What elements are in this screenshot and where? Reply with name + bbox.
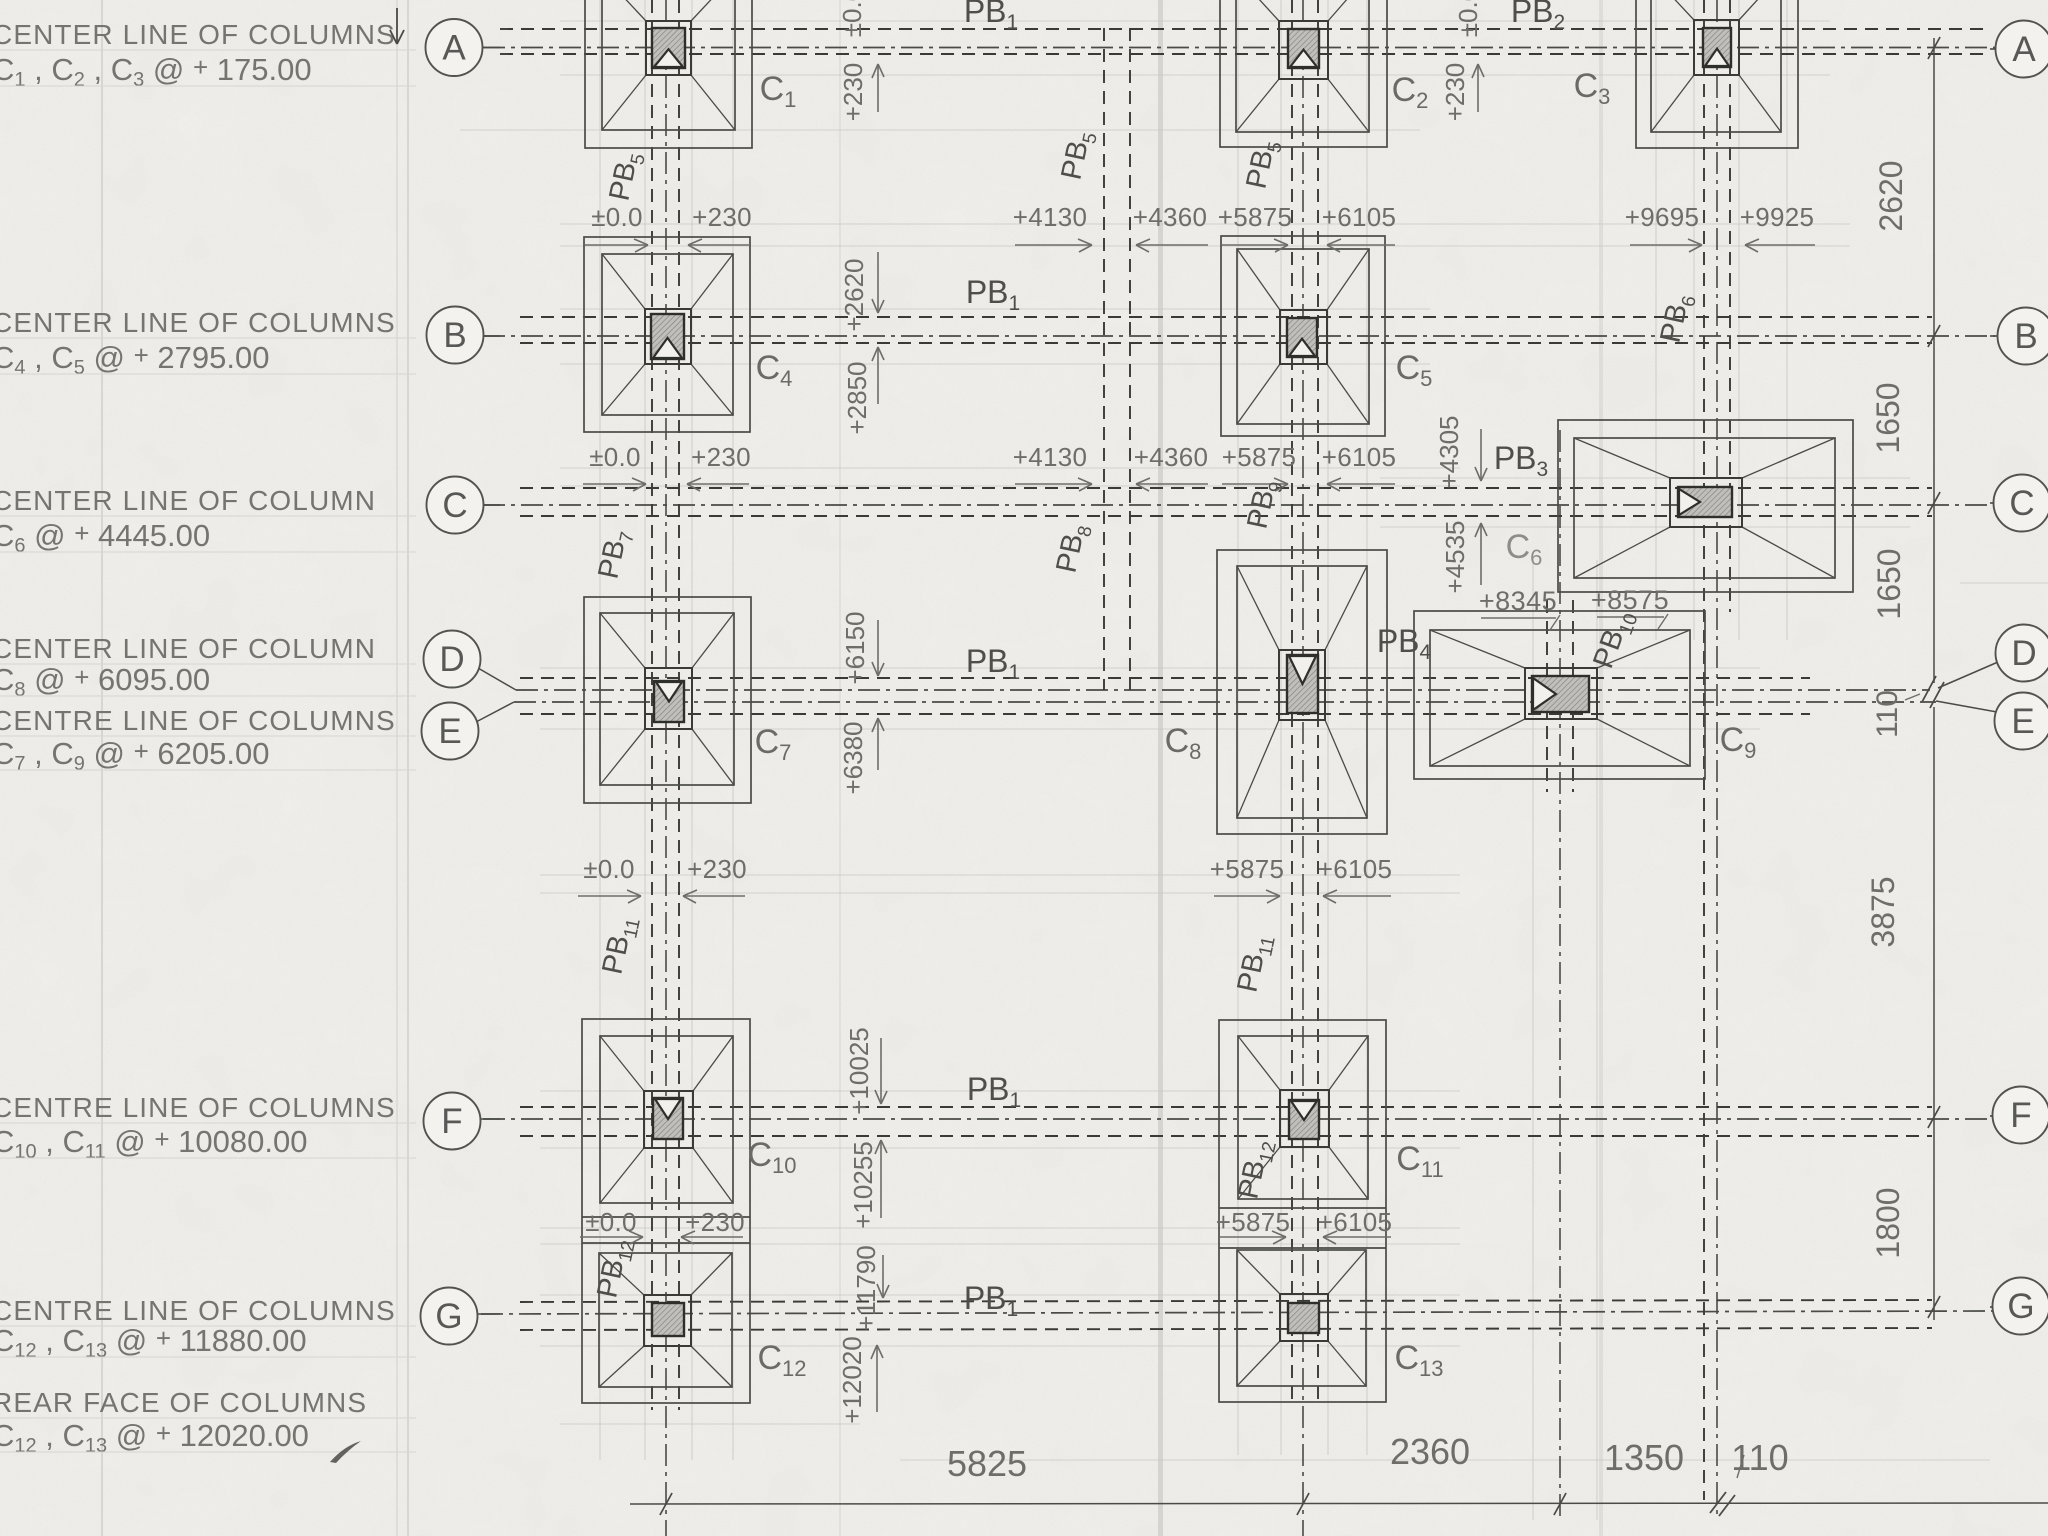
dimension &#177;0.0 top col1 (clipped): [837, 0, 867, 37]
svg-text:CENTER LINE OF COLUMNS: CENTER LINE OF COLUMNS: [0, 307, 396, 338]
label PB1 row D: [966, 643, 1020, 684]
dimension 2620 right: [1873, 160, 1909, 231]
beam PB1 edges row B: [520, 317, 1932, 343]
dimension +6105 @y878: [1318, 854, 1393, 903]
dimension 1650 right (C-D): [1871, 548, 1907, 619]
svg-text:+10255: +10255: [848, 1141, 878, 1228]
svg-text:+4130: +4130: [1013, 202, 1088, 232]
beam PB5/PB8 vertical mid bay: [1104, 28, 1130, 690]
dimension 1350 bottom: [1604, 1437, 1684, 1478]
dimension 1800 right: [1870, 1187, 1906, 1258]
grid bubble B right: [1998, 308, 2048, 365]
svg-text:+4305: +4305: [1434, 415, 1464, 488]
dimension 5825 bottom: [947, 1443, 1027, 1484]
svg-text:D: D: [439, 640, 464, 679]
column C3 (hatched): [1703, 28, 1731, 67]
svg-text:+4360: +4360: [1134, 442, 1209, 472]
grid line G: [481, 1311, 1995, 1314]
svg-text:+230: +230: [685, 1207, 745, 1237]
svg-text:+5875: +5875: [1218, 202, 1293, 232]
footing C2 pad: [1220, 0, 1387, 147]
label C2: [1392, 71, 1429, 113]
svg-text:+5875: +5875: [1222, 442, 1297, 472]
grid line E: [476, 701, 1997, 722]
label PB1 row G: [964, 1280, 1018, 1321]
grid bubble A left: [426, 19, 483, 76]
dimension +5875 @y1231: [1216, 1207, 1291, 1244]
grid bubble B left: [427, 307, 484, 364]
svg-text:A: A: [2012, 30, 2036, 69]
label C11: [1396, 1140, 1443, 1182]
svg-text:CENTRE LINE OF COLUMNS: CENTRE LINE OF COLUMNS: [0, 1092, 396, 1123]
svg-text:±0.0: ±0.0: [583, 854, 635, 884]
label PB11 col2: [1231, 931, 1279, 996]
break mark at D/E right: [1922, 676, 1944, 708]
dimension +4130 @y466: [1013, 442, 1092, 491]
svg-text:B: B: [443, 316, 466, 355]
dimension +11790: [851, 1245, 889, 1331]
svg-text:B: B: [2014, 317, 2037, 356]
label C8: [1165, 722, 1202, 764]
footing C11/C13 shared outer pad: [1219, 1020, 1386, 1402]
footing C5 pad: [1221, 236, 1385, 436]
beam edges C9 column line 3: [1547, 600, 1573, 792]
svg-text:+6105: +6105: [1318, 854, 1393, 884]
label C12: [757, 1339, 806, 1381]
footing C9 pad: [1414, 611, 1705, 779]
dimension +4130 @y226: [1013, 202, 1092, 252]
svg-text:+230: +230: [691, 442, 751, 472]
svg-text:+8575: +8575: [1591, 585, 1669, 615]
svg-text:C6 @ + 4445.00: C6 @ + 4445.00: [0, 518, 210, 557]
dimension +2850: [842, 347, 884, 435]
dimension +230 (C2 side): [1440, 63, 1484, 122]
column line 1 (x=666): [665, 0, 667, 1536]
dimension &#177;0.0 @y878: [578, 854, 641, 903]
footing C6 pad: [1558, 420, 1853, 592]
column C10 (hatched): [653, 1098, 683, 1139]
svg-text:+2620: +2620: [839, 258, 869, 331]
svg-text:+4535: +4535: [1440, 520, 1470, 593]
grid line A: [483, 47, 1995, 49]
column C2 (hatched): [1288, 29, 1319, 68]
scan fold band at x=1601: [1599, 0, 1603, 1536]
bottom dimension line: [630, 1492, 2048, 1516]
column C1 (hatched): [652, 28, 685, 68]
margin rule x=408: [397, 0, 408, 1536]
svg-text:+5875: +5875: [1216, 1207, 1291, 1237]
dimension +230 @y226: [688, 202, 752, 252]
dimension +6105 @y466: [1322, 442, 1397, 491]
svg-text:+5875: +5875: [1210, 854, 1285, 884]
label C7: [755, 723, 792, 765]
dimension +8345: [1479, 586, 1560, 630]
svg-text:3875: 3875: [1865, 876, 1901, 947]
beam PB5/PB11 edges on column line 1: [652, 0, 679, 1410]
dimension +230 @y466: [687, 442, 751, 491]
label PB9 col2: [1241, 477, 1287, 533]
label C3: [1574, 67, 1611, 109]
column C8 (hatched): [1287, 655, 1318, 713]
label C10: [747, 1136, 796, 1178]
grid bubble D right: [1996, 625, 2048, 682]
grid line D: [478, 662, 1998, 690]
dimension +8575: [1591, 585, 1669, 629]
svg-text:CENTRE LINE OF COLUMNS: CENTRE LINE OF COLUMNS: [0, 1295, 396, 1326]
svg-text:REAR FACE OF COLUMNS: REAR FACE OF COLUMNS: [0, 1387, 367, 1418]
svg-text:F: F: [441, 1102, 462, 1141]
faint construction verticals col3: [1533, 560, 1597, 1520]
svg-text:+6150: +6150: [840, 611, 870, 684]
svg-text:5825: 5825: [947, 1443, 1027, 1484]
label C5: [1396, 349, 1433, 391]
column line 2 (x=1303): [1302, 0, 1304, 1536]
svg-text:+10025: +10025: [844, 1027, 874, 1114]
svg-text:+230: +230: [838, 63, 868, 122]
left margin note block: [0, 19, 416, 1457]
column C11 (hatched): [1289, 1100, 1319, 1139]
dimension +6105 @y1231: [1318, 1207, 1393, 1244]
footing C12 pad: [599, 1253, 732, 1387]
dimension &#177;0.0 @y1231: [580, 1207, 643, 1244]
grid bubble G left: [421, 1288, 478, 1345]
column C4 (hatched): [651, 314, 684, 359]
dimension +6150: [840, 611, 884, 684]
svg-text:+11790: +11790: [851, 1245, 881, 1331]
beam PB3 edges row C: [520, 488, 1932, 516]
dimension 110 right (D-E): [1871, 690, 1920, 738]
dimension +9925 @y226: [1740, 202, 1815, 252]
column C7 (hatched): [654, 681, 684, 722]
margin rule x=102: [101, 0, 103, 1536]
dimension 110 bottom: [1731, 1437, 1788, 1478]
svg-text:C12 , C13 @ + 12020.00: C12 , C13 @ + 12020.00: [0, 1418, 309, 1457]
faint construction horizontals: [460, 21, 2048, 1460]
svg-text:+9695: +9695: [1625, 202, 1700, 232]
svg-text:1650: 1650: [1870, 382, 1906, 453]
svg-text:±0.0: ±0.0: [585, 1207, 637, 1237]
svg-text:2620: 2620: [1873, 160, 1909, 231]
grid line C: [483, 504, 1995, 506]
column C5 (hatched): [1287, 318, 1317, 357]
faint construction verticals col2: [1238, 0, 1367, 1455]
svg-text:F: F: [2010, 1096, 2031, 1135]
beam PB1/PB2 edges row A: [500, 29, 1990, 54]
dimension +10255: [848, 1140, 887, 1229]
footing C11 pad: [1238, 1036, 1368, 1199]
svg-text:E: E: [2011, 702, 2034, 741]
svg-text:+9925: +9925: [1740, 202, 1815, 232]
svg-text:+6380: +6380: [838, 721, 868, 794]
svg-text:+4360: +4360: [1133, 202, 1208, 232]
label PB3 row C: [1494, 440, 1548, 481]
label PB7 col1: [592, 527, 638, 583]
footing C8 pad: [1217, 550, 1387, 834]
dimension +230 @y878: [683, 854, 747, 903]
label PB11 col1: [596, 913, 644, 978]
svg-text:±0.0: ±0.0: [837, 0, 867, 37]
faint fold x=840: [839, 0, 841, 1536]
svg-text:+230: +230: [1440, 63, 1470, 122]
label PB12 col1: [591, 1236, 640, 1302]
bubble connector stubs: [478, 48, 1997, 1315]
label PB5 mid bay: [1055, 128, 1101, 184]
svg-text:C12 , C13 @ + 11880.00: C12 , C13 @ + 11880.00: [0, 1323, 307, 1362]
dimension +5875 @y226: [1218, 202, 1293, 252]
svg-text:+6105: +6105: [1318, 1207, 1393, 1237]
svg-text:C10 , C11 @ + 10080.00: C10 , C11 @ + 10080.00: [0, 1124, 307, 1163]
footing C1 pad: [585, 0, 752, 148]
label C9: [1720, 721, 1757, 763]
dimension +6105 @y226: [1322, 202, 1397, 252]
dimension &#177;0.0 top col2 (clipped): [1453, 0, 1483, 37]
svg-text:110: 110: [1871, 690, 1904, 738]
right dimension line x=1934: [1928, 37, 1940, 1320]
grid bubble F left: [424, 1093, 481, 1150]
grid bubble C left: [427, 477, 484, 534]
dimension &#177;0.0 @y466: [583, 442, 646, 491]
label PB12 col2: [1232, 1137, 1281, 1203]
dimension +4535: [1440, 520, 1487, 593]
footing C10 pad: [600, 1036, 733, 1203]
dimension +5875 @y466: [1222, 442, 1297, 491]
label PB5 col1: [603, 149, 649, 205]
label PB1 row F: [967, 1071, 1021, 1112]
svg-text:+4130: +4130: [1013, 442, 1088, 472]
svg-text:G: G: [435, 1297, 462, 1336]
label C4: [756, 349, 793, 391]
grid bubble F right: [1993, 1087, 2048, 1144]
footing C7 pad: [584, 597, 751, 803]
faint construction verticals col4: [1656, 0, 1787, 640]
scan fold band at x=1160: [1158, 0, 1163, 1536]
label PB4: [1377, 623, 1432, 664]
beam PB1 edges row G: [520, 1300, 1932, 1330]
svg-text:±0.0: ±0.0: [1453, 0, 1483, 37]
column C6 (hatched): [1678, 487, 1732, 517]
grid bubble E left: [422, 703, 479, 760]
footing C13 pad: [1237, 1250, 1366, 1386]
svg-text:±0.0: ±0.0: [591, 202, 643, 232]
svg-text:C: C: [442, 486, 467, 525]
svg-text:110: 110: [1731, 1437, 1788, 1478]
svg-text:A: A: [442, 29, 466, 68]
grid bubble A right: [1996, 21, 2048, 78]
svg-text:C1 , C2 , C3 @ + 175.00: C1 , C2 , C3 @ + 175.00: [0, 52, 312, 91]
svg-text:+230: +230: [687, 854, 747, 884]
label PB1 row B: [966, 274, 1020, 315]
dimension 3875 right: [1865, 876, 1901, 947]
label PB10 col4: [1587, 605, 1642, 674]
column C12 (hatched): [652, 1303, 684, 1336]
dimension +10025: [844, 1027, 887, 1114]
column C13 (hatched): [1288, 1303, 1319, 1333]
svg-text:1800: 1800: [1870, 1187, 1906, 1258]
label PB2 row A: [1511, 0, 1565, 34]
svg-text:±0.0: ±0.0: [589, 442, 641, 472]
dimension +230 (C1 side): [838, 63, 884, 122]
dimension +4360 @y226: [1133, 202, 1208, 252]
svg-text:+8345: +8345: [1479, 586, 1557, 616]
svg-text:G: G: [2007, 1287, 2034, 1326]
north/down arrow top left: [390, 8, 404, 44]
label PB6 col4: [1654, 291, 1700, 347]
pencil tick mark lower left: [330, 1441, 361, 1463]
column C9 (hatched): [1532, 676, 1589, 712]
svg-text:C8 @ + 6095.00: C8 @ + 6095.00: [0, 662, 210, 701]
svg-text:1350: 1350: [1604, 1437, 1684, 1478]
svg-text:1650: 1650: [1871, 548, 1907, 619]
svg-text:C: C: [2009, 484, 2034, 523]
svg-text:+2850: +2850: [842, 361, 872, 434]
dimension +9695 @y226: [1625, 202, 1702, 252]
svg-text:+6105: +6105: [1322, 442, 1397, 472]
svg-text:+12020: +12020: [837, 1336, 867, 1423]
grid bubble D left: [424, 631, 481, 688]
svg-text:CENTER LINE OF COLUMN: CENTER LINE OF COLUMN: [0, 633, 376, 664]
column line 3 (x=1560): [1559, 430, 1561, 1522]
dimension +230 @y1231: [681, 1207, 745, 1244]
footing C4 pad: [584, 237, 750, 432]
footing C10/C12 shared outer pad: [582, 1019, 750, 1403]
grid line F: [483, 1118, 1995, 1120]
column line 4 (x=1717): [1716, 0, 1718, 1516]
dimension +6380: [838, 718, 884, 795]
faint construction verticals col1: [600, 0, 733, 1460]
footing C3 pad: [1636, 0, 1798, 148]
beam PB1 edges row F: [520, 1107, 1932, 1136]
svg-text:+6105: +6105: [1322, 202, 1397, 232]
svg-text:E: E: [438, 712, 461, 751]
svg-text:CENTER LINE OF COLUMNS: CENTER LINE OF COLUMNS: [0, 19, 396, 50]
svg-text:2360: 2360: [1390, 1431, 1470, 1472]
grid bubble E right: [1995, 693, 2048, 750]
label PB1 row A: [964, 0, 1018, 34]
label PB8 mid bay: [1050, 521, 1096, 577]
grid line B: [483, 335, 1995, 337]
dimension 2360 bottom: [1390, 1431, 1470, 1472]
beam PB1/PB4 edges row D-E: [520, 678, 1810, 714]
label C1: [760, 70, 797, 112]
svg-text:D: D: [2011, 634, 2036, 673]
dimension +4360 @y466: [1134, 442, 1209, 491]
label C6: [1506, 528, 1543, 570]
label C13: [1394, 1339, 1443, 1381]
beam PB5/PB9/PB11 edges on column line 2: [1292, 0, 1318, 1405]
svg-text:CENTER LINE OF COLUMN: CENTER LINE OF COLUMN: [0, 485, 376, 516]
dimension &#177;0.0 @y226: [585, 202, 648, 252]
dimension +5875 @y878: [1210, 854, 1285, 903]
dimension 1650 right (B-C): [1870, 382, 1906, 453]
dimension +4305: [1434, 415, 1487, 488]
label PB5 col2: [1240, 137, 1286, 193]
grid bubble G right: [1993, 1278, 2048, 1335]
grid bubble C right: [1994, 475, 2048, 532]
svg-text:CENTRE LINE OF COLUMNS: CENTRE LINE OF COLUMNS: [0, 705, 396, 736]
dimension +12020: [837, 1336, 883, 1423]
svg-text:+230: +230: [692, 202, 752, 232]
dimension +2620: [839, 252, 884, 332]
beam PB6/PB10 edges on column line 4: [1704, 0, 1730, 1500]
